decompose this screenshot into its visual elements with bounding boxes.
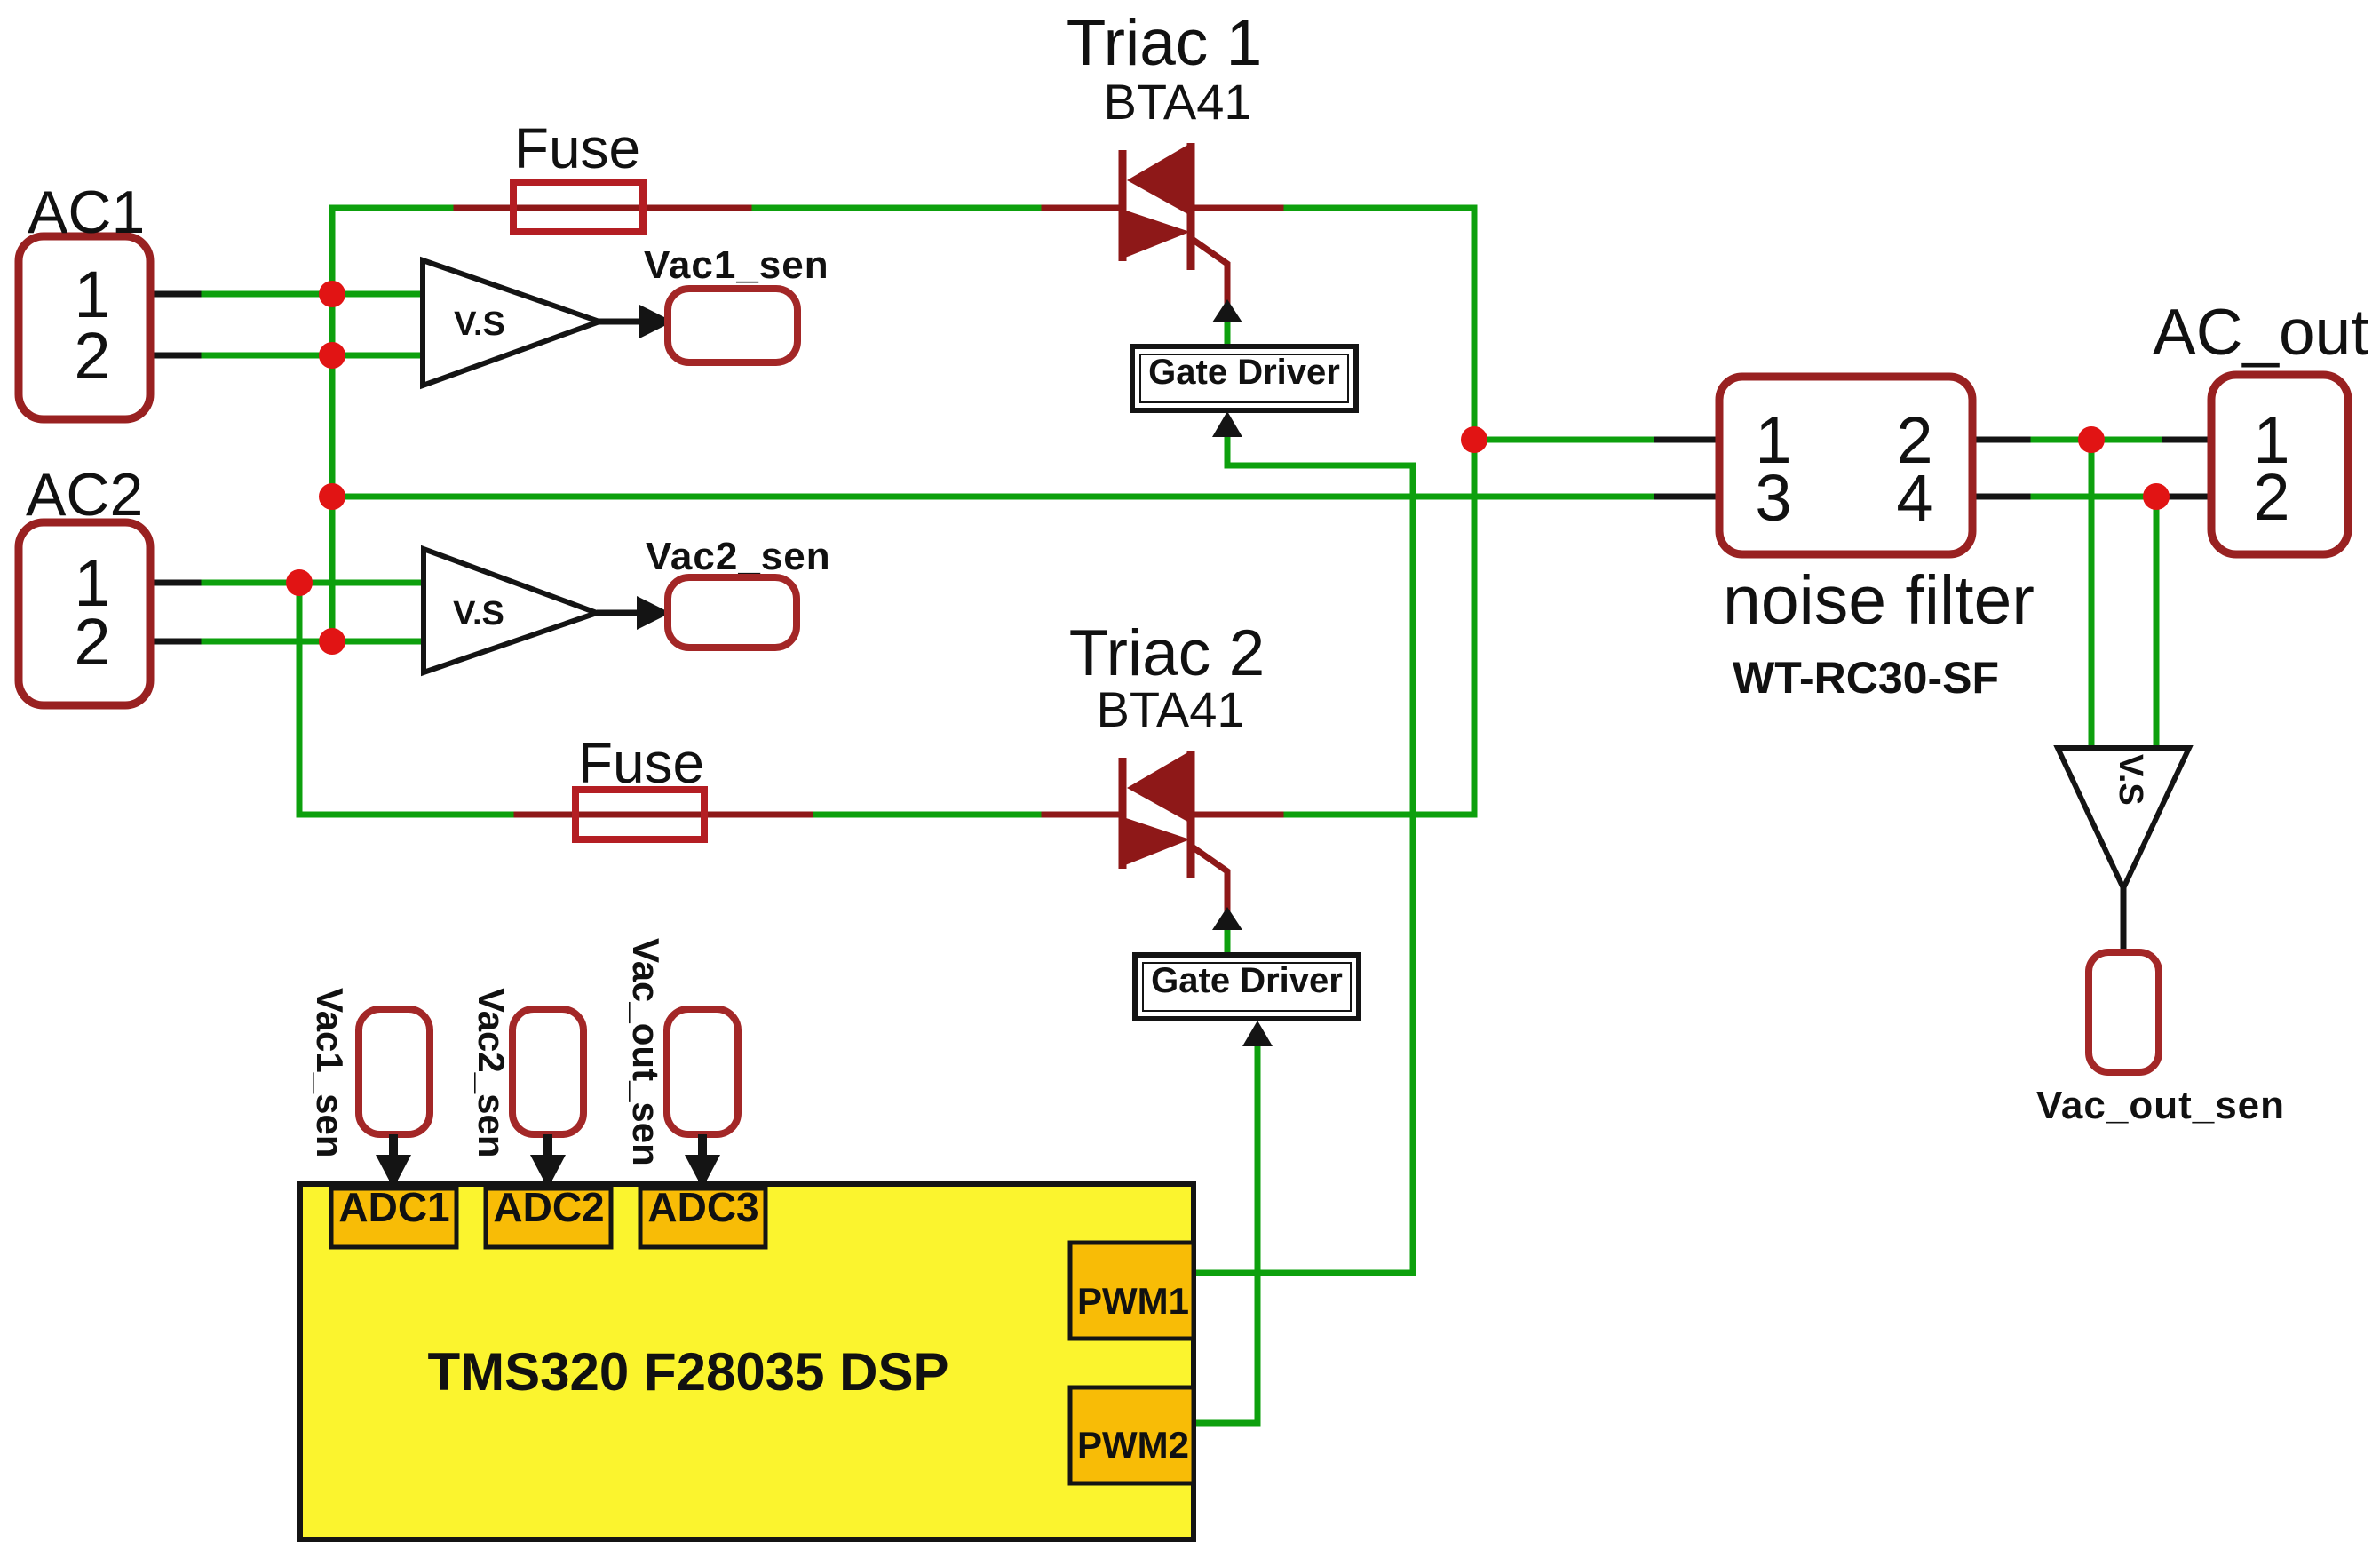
wire AC_out pin2 stub (black)	[2171, 494, 2214, 500]
junction dot triac outputs	[1461, 426, 1487, 453]
svg-text:AC2: AC2	[26, 461, 143, 529]
svg-text:noise filter: noise filter	[1723, 562, 2035, 639]
node Vac2_sen (net label box)	[646, 535, 831, 648]
svg-text:AC1: AC1	[28, 179, 145, 246]
wire triac2 left lead (dark red)	[1044, 812, 1121, 818]
U4 TMS320 F28035 DSP block	[300, 1184, 1194, 1539]
wire AC1 pin2 stub (black)	[150, 353, 206, 359]
transistor Q1 Triac 1 BTA41	[1067, 7, 1262, 270]
gate driver U1 box	[1132, 346, 1356, 410]
pin ADC3	[640, 1184, 766, 1247]
svg-text:Triac 1: Triac 1	[1067, 7, 1262, 79]
svg-text:Fuse: Fuse	[578, 731, 704, 795]
wire fuse2 left lead (dark red)	[517, 812, 706, 818]
arrow into gate driver1 bottom	[1212, 411, 1242, 437]
wire fuse1 left lead (dark red)	[456, 205, 645, 211]
wire vertical x1660 triac outputs (green)	[1472, 208, 1478, 815]
node Vac1_sen (net label box)	[644, 243, 829, 362]
op-amp V.S3 (output voltage sensor, pointing down)	[2058, 748, 2189, 888]
svg-text:BTA41: BTA41	[1103, 74, 1251, 130]
wire AC2 to fuse2 (green)	[299, 812, 519, 818]
junction dot AC2 pin2	[319, 628, 345, 655]
wire triac2 gate lead (dark red)	[1194, 848, 1227, 914]
wire to noise filter pin1 (green)	[1474, 437, 1659, 443]
pin ADC1	[331, 1184, 456, 1247]
wire neutral bus (green)	[332, 494, 1659, 500]
wire noise filter pin2 stub (black)	[1972, 437, 2035, 443]
wire fuse1 right lead (dark red)	[641, 205, 757, 211]
svg-text:Vac2_sen: Vac2_sen	[471, 988, 512, 1158]
wire V.S1 output arrow (black)	[599, 305, 673, 338]
node Vac_out_sen input label (vertical)	[625, 938, 738, 1166]
junction dot AC_out pin2	[2143, 483, 2170, 510]
pin PWM1	[1070, 1243, 1194, 1339]
wire vertical to V.S3 left (green)	[2089, 440, 2095, 751]
wire AC_out pin1 stub (black)	[2165, 437, 2214, 443]
svg-text:ADC2: ADC2	[493, 1184, 604, 1230]
node Vac2_sen input label (vertical)	[471, 988, 583, 1158]
wire gate driver2 input from PWM2 (green)	[1195, 1039, 1257, 1423]
junction dot neutral bus	[319, 483, 345, 510]
transistor Q2 Triac 2 BTA41	[1069, 617, 1265, 878]
op-amp V.S1 (voltage sensor amplifier)	[423, 260, 599, 386]
svg-text:V.S: V.S	[453, 595, 504, 632]
svg-text:PWM1: PWM1	[1077, 1280, 1189, 1322]
wire vertical AC2 hot x337 (green)	[297, 583, 303, 815]
svg-text:Vac2_sen: Vac2_sen	[646, 535, 831, 578]
wire noise filter pin2 to AC_out (green)	[2034, 437, 2167, 443]
wire noise filter pin1 stub (black)	[1657, 437, 1719, 443]
junction dot AC2 pin1	[286, 569, 313, 596]
connector AC2	[19, 461, 150, 705]
junction dot AC1 pin2	[319, 342, 345, 369]
wire V.S2 output arrow (black)	[597, 596, 670, 630]
gate driver U2 box	[1135, 955, 1359, 1019]
wire vertical bus x374 (green)	[329, 208, 336, 641]
svg-text:Vac1_sen: Vac1_sen	[309, 988, 351, 1158]
wire AC2 pin2 to V.S2 (green)	[204, 639, 424, 645]
node Vac1_sen input label (vertical)	[309, 988, 430, 1158]
svg-text:Vac_out_sen: Vac_out_sen	[625, 938, 667, 1166]
wire AC2 pin1 stub (black)	[150, 580, 206, 586]
wire arrow Vac_out_sen to ADC3	[685, 1134, 720, 1188]
wire arrow Vac1_sen to ADC1	[376, 1134, 411, 1188]
wire triac1 to corner (green)	[1287, 205, 1474, 211]
wire V.S3 output (black)	[2121, 886, 2127, 954]
wire fuse2 right lead (dark red)	[702, 812, 818, 818]
junction dot AC1 pin1	[319, 281, 345, 307]
svg-text:ADC3: ADC3	[647, 1184, 758, 1230]
svg-text:V.S: V.S	[2112, 754, 2149, 806]
wire fuse1 to triac1 (green)	[755, 205, 1046, 211]
wire triac2 right lead (dark red)	[1194, 812, 1289, 818]
wire noise filter pin3 stub (black)	[1657, 494, 1719, 500]
fuse F1	[513, 116, 643, 232]
node Vac_out_sen (net label box)	[2036, 952, 2285, 1127]
wire gate driver2 to triac2 gate (green)	[1225, 920, 1231, 955]
pin ADC2	[486, 1184, 611, 1247]
wire gate driver1 to triac1 gate (green)	[1225, 313, 1231, 348]
svg-text:ADC1: ADC1	[338, 1184, 449, 1230]
arrow into triac2 gate	[1212, 907, 1242, 930]
op-amp V.S2 (voltage sensor amplifier)	[424, 549, 597, 672]
wire triac1 right lead (dark red)	[1194, 205, 1289, 211]
arrow into gate driver2 bottom	[1242, 1021, 1273, 1046]
svg-text:Triac 2: Triac 2	[1069, 617, 1265, 689]
wire triac1 gate lead (dark red)	[1194, 241, 1227, 306]
arrow into triac1 gate	[1212, 299, 1242, 322]
svg-text:BTA41: BTA41	[1096, 681, 1244, 737]
wire vertical to V.S3 right (green)	[2154, 497, 2160, 751]
wire triac1 left lead (dark red)	[1044, 205, 1121, 211]
connector AC1	[19, 179, 150, 419]
svg-text:2: 2	[74, 319, 110, 393]
connector AC_out	[2153, 297, 2369, 554]
svg-text:WT-RC30-SF: WT-RC30-SF	[1733, 653, 1999, 703]
wire AC1 pin1 stub (black)	[150, 291, 206, 298]
svg-text:4: 4	[1896, 461, 1932, 535]
svg-text:Gate Driver: Gate Driver	[1151, 961, 1343, 1000]
svg-text:PWM2: PWM2	[1077, 1424, 1189, 1466]
wire gate driver1 input from below (green)	[1195, 430, 1413, 1273]
svg-text:Vac_out_sen: Vac_out_sen	[2036, 1084, 2285, 1127]
wire AC1 pin1 to V.S1 (green)	[204, 291, 423, 298]
svg-text:V.S: V.S	[454, 306, 505, 343]
svg-text:AC_out: AC_out	[2153, 297, 2369, 369]
pin PWM2	[1070, 1387, 1194, 1483]
wire top line left segment (green)	[332, 205, 459, 211]
svg-text:TMS320 F28035 DSP: TMS320 F28035 DSP	[428, 1342, 949, 1402]
svg-text:2: 2	[74, 605, 110, 679]
wire AC2 pin2 stub (black)	[150, 639, 206, 645]
wire fuse2 to triac2 (green)	[816, 812, 1046, 818]
noise filter U3 WT-RC30-SF	[1719, 377, 2035, 703]
svg-text:3: 3	[1755, 461, 1791, 535]
junction dot AC_out pin1	[2078, 426, 2105, 453]
wire noise filter pin4 to AC_out (green)	[2034, 494, 2173, 500]
svg-text:Vac1_sen: Vac1_sen	[644, 243, 829, 287]
svg-text:2: 2	[2253, 460, 2289, 534]
fuse F2	[575, 731, 704, 839]
svg-text:Gate Driver: Gate Driver	[1148, 353, 1340, 392]
wire noise filter pin4 stub (black)	[1972, 494, 2035, 500]
svg-text:Fuse: Fuse	[514, 116, 640, 180]
wire AC1 pin2 to V.S1 (green)	[204, 353, 423, 359]
wire arrow Vac2_sen to ADC2	[530, 1134, 566, 1188]
wire triac2 to vertical (green)	[1287, 812, 1474, 818]
wire AC2 pin1 to V.S2 (green)	[204, 580, 424, 586]
